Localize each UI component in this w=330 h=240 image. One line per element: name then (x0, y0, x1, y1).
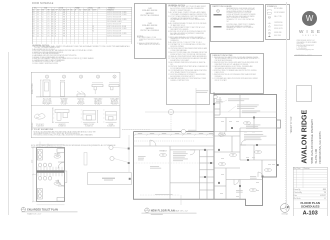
annotation text blocks (196, 89, 208, 92)
svg-text:3070 SC WOOD DOOR - 20 MIN: 3070 SC WOOD DOOR - 20 MIN (107, 28, 126, 30)
svg-text:TW: TW (324, 192, 327, 194)
dimension lines (129, 112, 277, 205)
svg-text:WD: WD (51, 23, 53, 25)
svg-text:3070 SC WOOD DOOR: 3070 SC WOOD DOOR (107, 23, 121, 25)
svg-text:7-0: 7-0 (41, 32, 43, 34)
svg-text:WD: WD (51, 25, 53, 27)
svg-text:N1: N1 (92, 28, 94, 30)
door swing arcs (58, 162, 65, 169)
symbols box (265, 4, 290, 41)
svg-text:107: 107 (32, 25, 34, 27)
svg-text:1.75: 1.75 (47, 25, 50, 27)
chase at east wall (65, 171, 67, 183)
svg-text:NEW FLOOR PLAN: NEW FLOOR PLAN (151, 209, 175, 212)
svg-text:110: 110 (32, 32, 34, 34)
svg-text:3-0: 3-0 (37, 23, 39, 25)
svg-text:HM: HM (63, 18, 65, 20)
toilet room walls (37, 148, 65, 202)
seal / stamp placeholder (296, 85, 312, 102)
svg-text:Plot Scale: Plot Scale (294, 197, 301, 200)
svg-text:2: 2 (23, 208, 24, 210)
svg-text:3" = 1'-0": 3" = 1'-0" (44, 104, 50, 106)
svg-text:ENLARGED TOILET PLAN: ENLARGED TOILET PLAN (27, 209, 58, 212)
project name block (rotated) (288, 100, 330, 166)
svg-text:HM: HM (63, 16, 65, 18)
door type 1 elevation (43, 80, 50, 97)
svg-text:1.75: 1.75 (47, 21, 50, 23)
svg-text:3070 SC WOOD DOOR - 20 MIN: 3070 SC WOOD DOOR - 20 MIN (107, 11, 126, 13)
svg-text:WD: WD (51, 18, 53, 20)
WISE design logo (302, 11, 317, 26)
svg-text:3: 3 (81, 76, 82, 78)
svg-text:7-0: 7-0 (41, 18, 43, 20)
svg-text:LBL: LBL (88, 9, 91, 11)
svg-text:7-0: 7-0 (41, 21, 43, 23)
svg-text:HM: HM (63, 11, 65, 13)
svg-text:EXIST 3070 HM DOOR - 90 MIN: EXIST 3070 HM DOOR - 90 MIN (107, 25, 126, 27)
svg-text:TENANT FIT-UP: TENANT FIT-UP (290, 116, 293, 134)
door type number bubbles (45, 75, 48, 78)
svg-text:101: 101 (32, 11, 34, 13)
svg-text:HM: HM (63, 32, 65, 34)
svg-text:NORCROSS, GA 30071: NORCROSS, GA 30071 (318, 131, 322, 164)
svg-text:1.75: 1.75 (47, 16, 50, 18)
svg-text:HD: HD (71, 9, 73, 11)
svg-text:3070 SC WOOD DOOR: 3070 SC WOOD DOOR (107, 16, 121, 18)
door swing arcs (150, 132, 263, 185)
svg-text:106: 106 (221, 164, 224, 166)
svg-text:103: 103 (32, 16, 34, 18)
svg-text:1.75: 1.75 (47, 35, 50, 37)
svg-text:7-0: 7-0 (41, 23, 43, 25)
north arrow (280, 204, 289, 213)
svg-text:105: 105 (56, 183, 59, 185)
svg-text:1.75: 1.75 (47, 28, 50, 30)
svg-text:Date: Date (294, 194, 297, 197)
svg-text:N1: N1 (92, 30, 94, 32)
toilet accessories sketch (34, 108, 116, 123)
svg-text:7-0: 7-0 (41, 11, 43, 13)
svg-text:101: 101 (221, 134, 224, 136)
svg-text:3-0: 3-0 (37, 30, 39, 32)
svg-text:1.75: 1.75 (47, 32, 50, 34)
svg-text:JB: JB (75, 9, 77, 11)
svg-text:104: 104 (32, 18, 34, 20)
svg-text:MEN: MEN (56, 180, 59, 182)
svg-text:104: 104 (56, 156, 59, 158)
section tag (84, 153, 87, 166)
svg-text:3-0: 3-0 (37, 21, 39, 23)
svg-text:WD: WD (51, 35, 53, 37)
svg-text:7-0: 7-0 (41, 16, 43, 18)
svg-text:7-0: 7-0 (41, 25, 43, 27)
svg-text:GLZ: GLZ (59, 9, 62, 11)
title block (288, 0, 330, 220)
svg-text:WD: WD (37, 9, 39, 11)
svg-text:3-0: 3-0 (37, 11, 39, 13)
svg-text:WD: WD (51, 28, 53, 30)
svg-text:107: 107 (232, 155, 235, 157)
sheet fold line left edge (7, 52, 10, 215)
drawing title 2: ENLARGED TOILET PLAN (21, 207, 25, 211)
svg-text:3070 SC WOOD DOOR - 20 MIN: 3070 SC WOOD DOOR - 20 MIN (107, 14, 126, 16)
svg-text:1.75: 1.75 (47, 14, 50, 16)
svg-text:THK: THK (47, 9, 50, 11)
svg-text:3070 SC WOOD DOOR: 3070 SC WOOD DOOR (107, 30, 121, 32)
svg-text:SIZE: SIZE (44, 7, 47, 9)
svg-text:DOOR: DOOR (59, 7, 63, 9)
svg-text:7-0: 7-0 (41, 14, 43, 16)
svg-text:SCALE: 1/8" = 1'-0": SCALE: 1/8" = 1'-0" (174, 209, 188, 212)
plumbing chase wall (37, 170, 65, 173)
svg-text:3-0: 3-0 (37, 32, 39, 34)
toilet stall partitions (38, 167, 62, 177)
svg-text:HM: HM (63, 14, 65, 16)
svg-text:TYP: TYP (55, 9, 58, 11)
svg-text:3-0: 3-0 (37, 35, 39, 37)
dashed demolition / grid lines (122, 85, 286, 210)
svg-text:NOTE: NOTE (93, 9, 97, 11)
door schedule table (32, 7, 132, 50)
svg-text:111: 111 (32, 35, 34, 37)
svg-text:AVALON RIDGE: AVALON RIDGE (302, 109, 309, 163)
svg-text:SCALE: 1/4" = 1'-0": SCALE: 1/4" = 1'-0" (27, 213, 41, 216)
svg-text:HM: HM (63, 25, 65, 27)
door type 4 head section (92, 85, 103, 87)
svg-text:TYP: TYP (67, 9, 70, 11)
room tags WOMEN 104 / MEN 105 (54, 155, 61, 158)
svg-text:7-0: 7-0 (41, 30, 43, 32)
svg-text:5: 5 (114, 76, 115, 78)
svg-text:Checked By: Checked By (294, 192, 302, 194)
svg-text:Drawn By: Drawn By (294, 188, 301, 191)
svg-text:01/25/17: 01/25/17 (320, 195, 326, 197)
svg-text:HM: HM (63, 28, 65, 30)
svg-text:108: 108 (246, 123, 249, 125)
water closets and lavatories (37, 149, 64, 201)
door type 3 sill detail (77, 94, 85, 97)
svg-text:109: 109 (257, 152, 260, 154)
svg-text:N1: N1 (92, 25, 94, 27)
svg-text:SCHEDULES: SCHEDULES (301, 204, 320, 208)
door type 5 jamb section (109, 85, 119, 87)
general notes column (166, 3, 210, 106)
door number tags (dark squares) (128, 148, 130, 150)
svg-text:1.75: 1.75 (47, 18, 50, 20)
architect address block (297, 41, 317, 51)
svg-text:105: 105 (32, 21, 34, 23)
svg-text:A-103: A-103 (303, 210, 318, 216)
svg-text:108: 108 (32, 28, 34, 30)
svg-text:HM: HM (63, 30, 65, 32)
TOILET ELEVATIONS heading and notes (31, 127, 120, 129)
svg-text:1.75: 1.75 (47, 11, 50, 13)
panel divider (31, 105, 120, 107)
svg-text:WD: WD (51, 11, 53, 13)
svg-text:HM: HM (63, 21, 65, 23)
elevation dimension ticks (53, 110, 105, 122)
svg-text:102: 102 (267, 170, 270, 172)
svg-text:106: 106 (32, 23, 34, 25)
interior partition walls - east room cluster (214, 102, 220, 104)
dimension lines (32, 142, 64, 205)
enlarged toilet plan (18, 138, 90, 223)
svg-text:1: 1 (47, 76, 48, 78)
svg-text:WD: WD (51, 16, 53, 18)
svg-text:WD: WD (51, 32, 53, 34)
svg-text:3070 SC WOOD DOOR - 20 MIN: 3070 SC WOOD DOOR - 20 MIN (107, 18, 126, 20)
misc fixture marks east cluster (221, 120, 224, 123)
svg-text:3-0: 3-0 (37, 14, 39, 16)
svg-text:3-0: 3-0 (37, 25, 39, 27)
svg-text:WD: WD (51, 30, 53, 32)
revision table / signature rows / sheet title / sheet number (293, 167, 328, 217)
svg-text:SIL: SIL (79, 9, 81, 11)
svg-text:TENANT: TENANT (159, 150, 167, 153)
fire barrier legend box (134, 3, 166, 60)
svg-text:JMW: JMW (323, 189, 327, 191)
svg-text:7-0: 7-0 (41, 28, 43, 30)
svg-text:1:1: 1:1 (324, 198, 326, 200)
svg-text:13'-6": 13'-6" (31, 159, 33, 163)
svg-text:HGT: HGT (42, 9, 45, 11)
svg-text:4: 4 (98, 76, 99, 78)
svg-text:Revision: Revision (304, 167, 310, 169)
svg-text:1.75: 1.75 (47, 23, 50, 25)
svg-text:TOILET ACC.: TOILET ACC. (36, 123, 45, 126)
svg-text:7-0: 7-0 (41, 35, 43, 37)
ground line (36, 96, 119, 98)
svg-text:LBL: LBL (98, 7, 101, 9)
door type 2 elevation (61, 82, 65, 97)
interior partition walls - west half (134, 95, 277, 200)
svg-text:TOILET ELEVATIONS: TOILET ELEVATIONS (34, 128, 54, 131)
svg-text:3-0: 3-0 (37, 28, 39, 30)
svg-text:102: 102 (32, 14, 34, 16)
demolition notes box (210, 53, 265, 95)
svg-text:1: 1 (146, 209, 147, 211)
svg-text:WD: WD (51, 21, 53, 23)
svg-text:1.75: 1.75 (47, 30, 50, 32)
door schedule title (32, 3, 53, 5)
svg-text:103: 103 (252, 190, 255, 192)
grid bubble and wall tag circles (168, 109, 173, 114)
svg-text:HM: HM (63, 35, 65, 37)
svg-text:3-0: 3-0 (37, 16, 39, 18)
room number ovals (159, 153, 166, 156)
svg-text:Date: Date (297, 167, 300, 170)
exterior walls of tenant space (134, 93, 215, 132)
door general notes (32, 45, 134, 65)
svg-text:100: 100 (162, 155, 165, 157)
drawing title 1: NEW FLOOR PLAN (145, 208, 150, 213)
partition legend box (210, 4, 265, 43)
svg-text:DOOR TYPES: DOOR TYPES (32, 84, 34, 94)
main floor plan (60, 88, 292, 223)
svg-text:3070 SC WOOD DOOR: 3070 SC WOOD DOOR (107, 35, 121, 37)
svg-text:109: 109 (32, 30, 34, 32)
svg-text:WD: WD (51, 14, 53, 16)
annotation label box at west wall (88, 173, 132, 185)
svg-text:3070 SC WOOD DOOR - 20 MIN: 3070 SC WOOD DOOR - 20 MIN (107, 32, 126, 34)
svg-text:HM: HM (63, 23, 65, 25)
door types and toilet elevations panel (31, 72, 121, 150)
svg-text:2: 2 (64, 76, 65, 78)
svg-text:3-0: 3-0 (37, 18, 39, 20)
WISE DESIGN wordmark (288, 29, 330, 34)
